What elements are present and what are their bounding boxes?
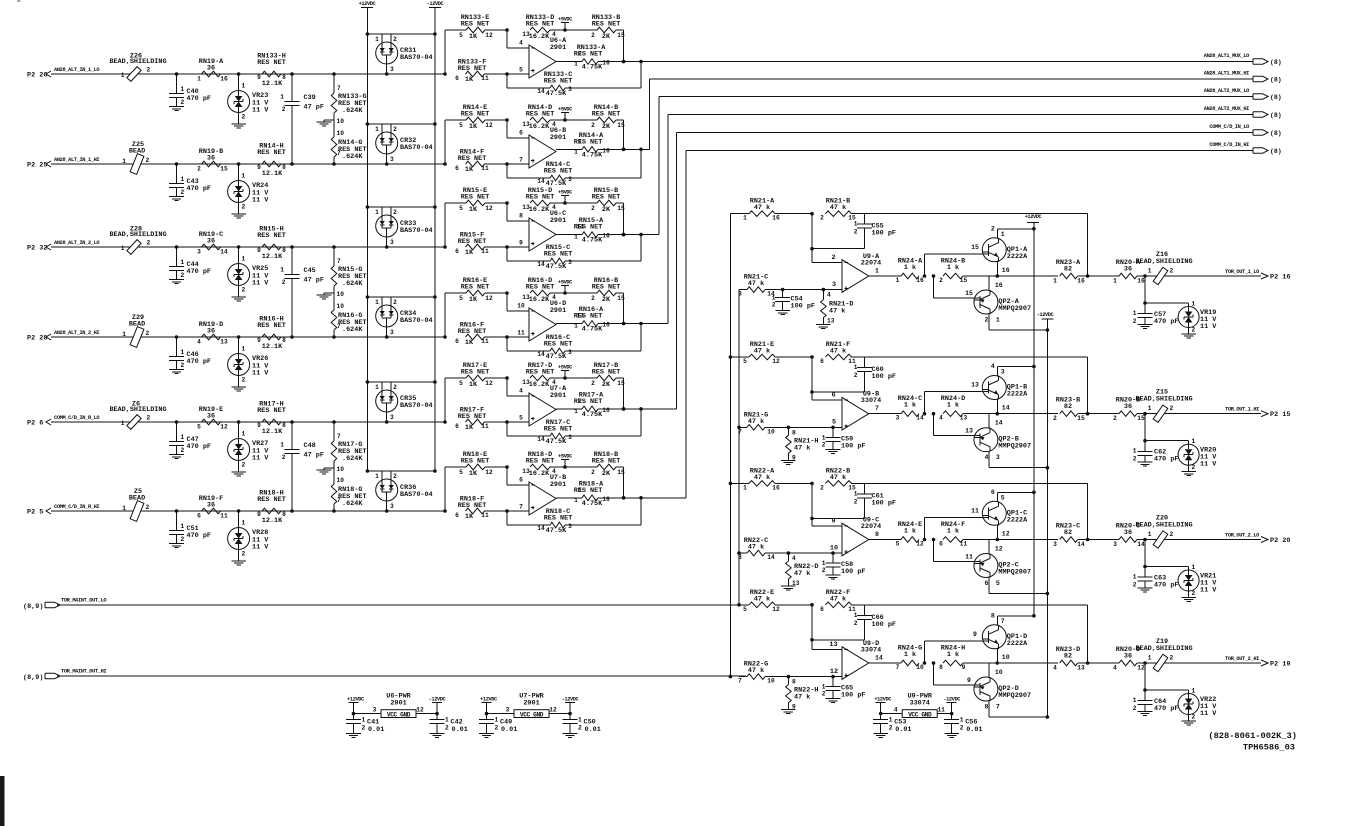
svg-text:COMM_C/D_IN_R_HI: COMM_C/D_IN_R_HI bbox=[54, 504, 99, 510]
svg-text:1: 1 bbox=[181, 259, 185, 266]
svg-text:BEAD,SHIELDING: BEAD,SHIELDING bbox=[1135, 396, 1192, 404]
svg-text:1: 1 bbox=[280, 442, 284, 449]
svg-text:1: 1 bbox=[743, 484, 747, 491]
svg-text:P2 16: P2 16 bbox=[1270, 274, 1290, 282]
svg-text:BAS70-04: BAS70-04 bbox=[400, 227, 433, 235]
svg-text:10: 10 bbox=[767, 428, 775, 435]
svg-text:1: 1 bbox=[181, 176, 185, 183]
svg-text:6: 6 bbox=[455, 423, 459, 430]
svg-text:10: 10 bbox=[767, 678, 775, 685]
svg-text:2: 2 bbox=[242, 114, 246, 121]
svg-text:RES NET: RES NET bbox=[574, 224, 603, 232]
svg-text:1K: 1K bbox=[465, 249, 474, 257]
svg-text:TOR_OUT_1_HI: TOR_OUT_1_HI bbox=[1225, 407, 1259, 413]
svg-text:RES NET: RES NET bbox=[592, 284, 621, 292]
svg-text:11: 11 bbox=[481, 512, 489, 519]
svg-text:2: 2 bbox=[393, 126, 397, 133]
svg-text:15: 15 bbox=[617, 122, 625, 129]
svg-text:9: 9 bbox=[792, 454, 796, 461]
svg-text:3: 3 bbox=[568, 86, 572, 93]
svg-text:16.2K: 16.2K bbox=[529, 123, 550, 131]
svg-text:AN28_ALT1_MUX_HI: AN28_ALT1_MUX_HI bbox=[1204, 71, 1249, 77]
svg-text:RES NET: RES NET bbox=[592, 458, 621, 466]
svg-text:0.01: 0.01 bbox=[966, 726, 982, 734]
svg-text:0.01: 0.01 bbox=[501, 726, 517, 734]
svg-text:1: 1 bbox=[875, 268, 879, 275]
svg-text:3: 3 bbox=[568, 349, 572, 356]
svg-text:47 k: 47 k bbox=[794, 444, 810, 452]
svg-text:2222A: 2222A bbox=[1007, 516, 1028, 524]
svg-text:5: 5 bbox=[459, 122, 463, 129]
svg-text:12.1K: 12.1K bbox=[262, 343, 283, 351]
svg-text:15: 15 bbox=[617, 295, 625, 302]
svg-text:6: 6 bbox=[831, 392, 835, 400]
svg-text:3: 3 bbox=[896, 415, 900, 422]
svg-text:1: 1 bbox=[242, 431, 246, 438]
svg-text:.624K: .624K bbox=[342, 153, 363, 161]
svg-text:P2 6: P2 6 bbox=[27, 420, 43, 428]
svg-text:1: 1 bbox=[1148, 268, 1152, 275]
svg-text:RES NET: RES NET bbox=[461, 21, 490, 29]
svg-text:470 pF: 470 pF bbox=[1154, 318, 1178, 326]
svg-text:47 k: 47 k bbox=[754, 595, 770, 603]
svg-text:COMM_C/D_IN_LO: COMM_C/D_IN_LO bbox=[1209, 124, 1249, 130]
svg-text:1: 1 bbox=[996, 317, 1000, 324]
svg-text:8: 8 bbox=[991, 612, 995, 619]
svg-text:8: 8 bbox=[282, 422, 286, 429]
svg-text:1: 1 bbox=[280, 267, 284, 274]
svg-text:22074: 22074 bbox=[861, 260, 881, 268]
svg-text:5: 5 bbox=[996, 580, 1000, 587]
svg-text:16.2K: 16.2K bbox=[529, 470, 550, 478]
svg-text:8: 8 bbox=[984, 704, 988, 711]
svg-text:1: 1 bbox=[1148, 531, 1152, 538]
svg-text:BAS70-04: BAS70-04 bbox=[400, 491, 433, 499]
svg-text:(828-8061-002K_3): (828-8061-002K_3) bbox=[1208, 731, 1297, 741]
svg-text:VCC GND: VCC GND bbox=[908, 711, 932, 718]
svg-text:14: 14 bbox=[537, 178, 545, 185]
svg-text:10: 10 bbox=[916, 664, 924, 671]
svg-text:2: 2 bbox=[1170, 268, 1174, 275]
svg-text:16: 16 bbox=[220, 76, 228, 83]
svg-text:16: 16 bbox=[602, 60, 610, 67]
svg-text:2K: 2K bbox=[602, 123, 611, 131]
svg-text:8: 8 bbox=[792, 429, 796, 436]
svg-text:14: 14 bbox=[767, 554, 775, 561]
svg-text:33074: 33074 bbox=[861, 647, 881, 655]
svg-text:+5VDC: +5VDC bbox=[558, 280, 573, 286]
svg-text:3: 3 bbox=[197, 249, 201, 256]
svg-text:1: 1 bbox=[122, 158, 126, 165]
svg-text:1: 1 bbox=[822, 684, 826, 691]
svg-text:47 k: 47 k bbox=[754, 204, 770, 212]
svg-text:1: 1 bbox=[242, 346, 246, 353]
svg-text:4.75K: 4.75K bbox=[582, 500, 603, 508]
svg-text:10: 10 bbox=[337, 477, 345, 484]
svg-text:AN28_ALT_IN_1_LO: AN28_ALT_IN_1_LO bbox=[54, 67, 99, 73]
svg-text:2: 2 bbox=[393, 384, 397, 391]
svg-text:3: 3 bbox=[390, 156, 394, 163]
svg-text:2: 2 bbox=[854, 620, 858, 627]
svg-text:8: 8 bbox=[792, 679, 796, 686]
svg-text:RES NET: RES NET bbox=[461, 194, 490, 202]
svg-text:6: 6 bbox=[939, 541, 943, 548]
svg-text:AN28_ALT_IN_2_LO: AN28_ALT_IN_2_LO bbox=[54, 240, 99, 246]
svg-text:2901: 2901 bbox=[550, 44, 566, 52]
svg-text:1K: 1K bbox=[465, 166, 474, 174]
svg-text:12: 12 bbox=[485, 122, 493, 129]
svg-text:1 k: 1 k bbox=[904, 264, 916, 272]
svg-text:1: 1 bbox=[375, 384, 379, 391]
svg-text:TOR_OUT_1_LO: TOR_OUT_1_LO bbox=[1225, 269, 1259, 275]
svg-text:RES NET: RES NET bbox=[458, 328, 487, 336]
svg-text:1: 1 bbox=[960, 717, 964, 724]
svg-text:COMM_C/D_IN_R_LO: COMM_C/D_IN_R_LO bbox=[54, 415, 99, 421]
svg-text:16: 16 bbox=[995, 282, 1003, 289]
svg-text:RES NET: RES NET bbox=[592, 111, 621, 119]
svg-text:10: 10 bbox=[337, 130, 345, 137]
svg-text:14: 14 bbox=[537, 351, 545, 358]
svg-text:2: 2 bbox=[1113, 415, 1117, 422]
svg-text:47 k: 47 k bbox=[830, 348, 846, 356]
svg-text:6: 6 bbox=[197, 513, 201, 520]
svg-text:47.5K: 47.5K bbox=[546, 90, 567, 98]
svg-text:100 pF: 100 pF bbox=[791, 303, 815, 311]
svg-text:6: 6 bbox=[455, 75, 459, 82]
svg-text:2: 2 bbox=[242, 551, 246, 558]
svg-text:1 k: 1 k bbox=[947, 528, 959, 536]
svg-text:3: 3 bbox=[568, 434, 572, 441]
svg-text:12.1K: 12.1K bbox=[262, 170, 283, 178]
svg-text:2: 2 bbox=[1133, 705, 1137, 712]
svg-text:RES NET: RES NET bbox=[526, 111, 555, 119]
svg-text:3: 3 bbox=[738, 554, 742, 561]
svg-text:47 pF: 47 pF bbox=[304, 277, 324, 285]
svg-text:BEAD,SHIELDING: BEAD,SHIELDING bbox=[109, 406, 166, 414]
svg-text:470 pF: 470 pF bbox=[1154, 582, 1178, 590]
svg-text:+5VDC: +5VDC bbox=[558, 107, 573, 113]
svg-text:BEAD,SHIELDING: BEAD,SHIELDING bbox=[109, 231, 166, 239]
svg-text:2: 2 bbox=[591, 295, 595, 302]
svg-text:12: 12 bbox=[416, 707, 424, 714]
svg-text:1 k: 1 k bbox=[947, 402, 959, 410]
svg-text:RES NET: RES NET bbox=[458, 155, 487, 163]
svg-text:-12VDC: -12VDC bbox=[562, 696, 580, 702]
svg-text:2: 2 bbox=[854, 498, 858, 505]
svg-text:13: 13 bbox=[1077, 665, 1085, 672]
svg-text:7: 7 bbox=[519, 504, 523, 511]
svg-text:RES NET: RES NET bbox=[526, 194, 555, 202]
svg-text:BAS70-04: BAS70-04 bbox=[400, 402, 433, 410]
svg-text:36: 36 bbox=[207, 155, 215, 163]
svg-text:1: 1 bbox=[1148, 655, 1152, 662]
svg-text:AN28_ALT2_MUX_LO: AN28_ALT2_MUX_LO bbox=[1204, 88, 1249, 94]
svg-text:47 k: 47 k bbox=[830, 204, 846, 212]
svg-text:11 V: 11 V bbox=[1200, 323, 1217, 331]
svg-text:47 pF: 47 pF bbox=[304, 104, 324, 112]
svg-text:1: 1 bbox=[197, 76, 201, 83]
svg-text:+5VDC: +5VDC bbox=[558, 17, 573, 23]
svg-text:AN28_ALT1_MUX_LO: AN28_ALT1_MUX_LO bbox=[1204, 53, 1249, 59]
svg-text:9: 9 bbox=[519, 240, 523, 247]
svg-text:1: 1 bbox=[574, 408, 578, 415]
svg-text:470 pF: 470 pF bbox=[187, 532, 211, 540]
svg-text:9: 9 bbox=[257, 164, 261, 171]
svg-text:100 pF: 100 pF bbox=[872, 621, 896, 629]
svg-text:2: 2 bbox=[591, 205, 595, 212]
svg-text:15: 15 bbox=[960, 277, 968, 284]
svg-text:1: 1 bbox=[1148, 405, 1152, 412]
svg-text:AN28_ALT2_MUX_HI: AN28_ALT2_MUX_HI bbox=[1204, 106, 1249, 112]
svg-text:14: 14 bbox=[537, 436, 545, 443]
svg-text:47 k: 47 k bbox=[748, 667, 764, 675]
svg-text:16.2K: 16.2K bbox=[529, 206, 550, 214]
svg-text:11 V: 11 V bbox=[252, 107, 269, 115]
svg-text:RES NET: RES NET bbox=[526, 458, 555, 466]
svg-text:2901: 2901 bbox=[550, 481, 566, 489]
svg-text:2: 2 bbox=[591, 469, 595, 476]
svg-text:1: 1 bbox=[574, 61, 578, 68]
svg-text:15: 15 bbox=[617, 380, 625, 387]
svg-text:470 pF: 470 pF bbox=[187, 358, 211, 366]
svg-text:2: 2 bbox=[242, 287, 246, 294]
svg-text:2: 2 bbox=[282, 454, 286, 461]
svg-text:2: 2 bbox=[1170, 405, 1174, 412]
svg-text:COMM_C/D_IN_HI: COMM_C/D_IN_HI bbox=[1209, 142, 1249, 148]
svg-text:7: 7 bbox=[738, 428, 742, 435]
svg-text:8: 8 bbox=[282, 74, 286, 81]
svg-text:16: 16 bbox=[772, 215, 780, 222]
svg-text:1K: 1K bbox=[469, 296, 478, 304]
svg-text:3: 3 bbox=[373, 707, 377, 714]
svg-text:5: 5 bbox=[832, 419, 836, 427]
svg-text:1: 1 bbox=[574, 148, 578, 155]
svg-text:2: 2 bbox=[146, 330, 150, 337]
svg-text:5: 5 bbox=[197, 424, 201, 431]
svg-text:1: 1 bbox=[445, 717, 449, 724]
svg-text:RES NET: RES NET bbox=[257, 322, 286, 330]
svg-text:1K: 1K bbox=[469, 470, 478, 478]
svg-text:7: 7 bbox=[738, 678, 742, 685]
svg-text:1: 1 bbox=[574, 497, 578, 504]
svg-text:7: 7 bbox=[337, 85, 341, 92]
svg-text:10: 10 bbox=[337, 118, 345, 125]
svg-text:+5VDC: +5VDC bbox=[558, 365, 573, 371]
svg-text:RES NET: RES NET bbox=[461, 369, 490, 377]
svg-text:6: 6 bbox=[455, 165, 459, 172]
svg-text:(8): (8) bbox=[1270, 94, 1282, 101]
svg-text:9: 9 bbox=[962, 664, 966, 671]
svg-text:15: 15 bbox=[965, 290, 973, 297]
svg-text:.624K: .624K bbox=[342, 280, 363, 288]
svg-text:2: 2 bbox=[772, 302, 776, 309]
svg-text:100 pF: 100 pF bbox=[872, 373, 896, 381]
svg-text:7: 7 bbox=[996, 704, 1000, 711]
svg-text:2: 2 bbox=[146, 157, 150, 164]
svg-text:11 V: 11 V bbox=[1200, 461, 1217, 469]
svg-text:9: 9 bbox=[257, 74, 261, 81]
svg-text:13: 13 bbox=[792, 580, 800, 587]
svg-text:3: 3 bbox=[568, 259, 572, 266]
svg-text:12: 12 bbox=[485, 469, 493, 476]
svg-text:470 pF: 470 pF bbox=[187, 185, 211, 193]
svg-text:47.5K: 47.5K bbox=[546, 438, 567, 446]
svg-text:12.1K: 12.1K bbox=[262, 253, 283, 261]
svg-text:RES NET: RES NET bbox=[574, 487, 603, 495]
svg-text:9: 9 bbox=[973, 631, 977, 638]
svg-text:7: 7 bbox=[337, 258, 341, 265]
svg-text:2901: 2901 bbox=[550, 217, 566, 225]
svg-text:1: 1 bbox=[574, 323, 578, 330]
svg-text:2: 2 bbox=[820, 215, 824, 222]
svg-text:13: 13 bbox=[827, 318, 835, 325]
svg-text:47 k: 47 k bbox=[754, 348, 770, 356]
svg-text:2: 2 bbox=[1192, 714, 1196, 721]
svg-text:5: 5 bbox=[1001, 494, 1005, 501]
svg-text:2: 2 bbox=[889, 725, 893, 732]
svg-text:6: 6 bbox=[519, 477, 523, 484]
svg-text:7: 7 bbox=[337, 433, 341, 440]
svg-text:100 pF: 100 pF bbox=[872, 230, 896, 238]
svg-text:47.5K: 47.5K bbox=[546, 263, 567, 271]
svg-text:1: 1 bbox=[1001, 231, 1005, 238]
svg-text:1K: 1K bbox=[469, 123, 478, 131]
svg-text:2: 2 bbox=[181, 447, 185, 454]
svg-text:2: 2 bbox=[1133, 318, 1137, 325]
svg-text:-12VDC: -12VDC bbox=[427, 1, 445, 7]
svg-text:4: 4 bbox=[792, 555, 796, 562]
svg-text:0.01: 0.01 bbox=[368, 726, 384, 734]
svg-text:16.2K: 16.2K bbox=[529, 381, 550, 389]
svg-text:6: 6 bbox=[455, 512, 459, 519]
svg-text:MMPQ2907: MMPQ2907 bbox=[998, 692, 1031, 700]
svg-text:RES NET: RES NET bbox=[257, 496, 286, 504]
svg-text:2: 2 bbox=[393, 209, 397, 216]
svg-text:1: 1 bbox=[375, 209, 379, 216]
svg-text:MMPQ2907: MMPQ2907 bbox=[998, 569, 1031, 577]
svg-text:10: 10 bbox=[337, 466, 345, 473]
svg-text:RES NET: RES NET bbox=[257, 59, 286, 67]
svg-text:RES NET: RES NET bbox=[461, 284, 490, 292]
svg-text:1: 1 bbox=[122, 505, 126, 512]
svg-text:2: 2 bbox=[181, 272, 185, 279]
svg-text:4: 4 bbox=[197, 339, 201, 346]
svg-text:BAS70-04: BAS70-04 bbox=[400, 317, 433, 325]
svg-text:2222A: 2222A bbox=[1007, 640, 1028, 648]
svg-text:11: 11 bbox=[220, 513, 228, 520]
svg-text:14: 14 bbox=[1077, 541, 1085, 548]
svg-text:2: 2 bbox=[147, 415, 151, 422]
svg-text:8: 8 bbox=[282, 511, 286, 518]
svg-text:1 k: 1 k bbox=[947, 264, 959, 272]
svg-text:2: 2 bbox=[495, 725, 499, 732]
svg-text:RES NET: RES NET bbox=[458, 502, 487, 510]
svg-text:16.2K: 16.2K bbox=[529, 33, 550, 41]
svg-text:RES NET: RES NET bbox=[461, 458, 490, 466]
svg-text:1K: 1K bbox=[469, 381, 478, 389]
svg-text:12: 12 bbox=[485, 205, 493, 212]
svg-text:6: 6 bbox=[820, 606, 824, 613]
svg-text:P2 15: P2 15 bbox=[1270, 411, 1290, 419]
svg-text:15: 15 bbox=[617, 32, 625, 39]
svg-text:3: 3 bbox=[1053, 541, 1057, 548]
svg-text:1: 1 bbox=[242, 83, 246, 90]
svg-text:11 V: 11 V bbox=[1200, 710, 1217, 718]
svg-text:4: 4 bbox=[894, 707, 898, 714]
svg-text:(8): (8) bbox=[1270, 148, 1282, 155]
svg-text:10: 10 bbox=[1002, 654, 1010, 661]
svg-text:1: 1 bbox=[375, 299, 379, 306]
svg-text:14: 14 bbox=[995, 420, 1003, 427]
svg-text:47.5K: 47.5K bbox=[546, 353, 567, 361]
svg-text:33074: 33074 bbox=[861, 397, 881, 405]
svg-text:2901: 2901 bbox=[523, 700, 539, 708]
svg-text:36: 36 bbox=[207, 65, 215, 73]
svg-text:2: 2 bbox=[854, 229, 858, 236]
svg-text:47 k: 47 k bbox=[830, 595, 846, 603]
svg-text:RES NET: RES NET bbox=[574, 313, 603, 321]
svg-text:100 pF: 100 pF bbox=[841, 568, 865, 576]
svg-text:TOR_MAINT_OUT_LO: TOR_MAINT_OUT_LO bbox=[61, 598, 106, 604]
svg-text:2: 2 bbox=[591, 122, 595, 129]
svg-text:RES NET: RES NET bbox=[592, 21, 621, 29]
svg-text:2901: 2901 bbox=[390, 700, 406, 708]
svg-text:1: 1 bbox=[1133, 574, 1137, 581]
svg-text:470 pF: 470 pF bbox=[1154, 705, 1178, 713]
svg-text:1: 1 bbox=[1192, 564, 1196, 571]
svg-text:1: 1 bbox=[1133, 448, 1137, 455]
svg-text:6: 6 bbox=[455, 338, 459, 345]
svg-text:12: 12 bbox=[549, 707, 557, 714]
svg-text:13: 13 bbox=[829, 641, 837, 649]
svg-text:1: 1 bbox=[362, 717, 366, 724]
svg-text:36: 36 bbox=[207, 328, 215, 336]
svg-text:RES NET: RES NET bbox=[257, 407, 286, 415]
svg-text:1: 1 bbox=[181, 434, 185, 441]
svg-text:6: 6 bbox=[984, 580, 988, 587]
svg-text:1: 1 bbox=[375, 126, 379, 133]
svg-text:RES NET: RES NET bbox=[257, 149, 286, 157]
svg-text:1: 1 bbox=[854, 612, 858, 619]
svg-text:1: 1 bbox=[1113, 278, 1117, 285]
svg-text:4: 4 bbox=[984, 454, 988, 461]
svg-text:11: 11 bbox=[937, 707, 945, 714]
svg-text:2: 2 bbox=[181, 536, 185, 543]
svg-text:9: 9 bbox=[257, 422, 261, 429]
svg-text:14: 14 bbox=[916, 415, 924, 422]
svg-text:6: 6 bbox=[820, 358, 824, 365]
svg-text:2: 2 bbox=[147, 67, 151, 74]
svg-text:6: 6 bbox=[519, 130, 523, 137]
svg-text:14: 14 bbox=[537, 88, 545, 95]
svg-text:15: 15 bbox=[1137, 415, 1145, 422]
svg-text:0.01: 0.01 bbox=[585, 726, 601, 734]
svg-text:RES NET: RES NET bbox=[544, 426, 573, 434]
svg-text:4: 4 bbox=[1053, 665, 1057, 672]
svg-text:0.01: 0.01 bbox=[895, 726, 911, 734]
svg-text:12: 12 bbox=[485, 32, 493, 39]
svg-text:1 k: 1 k bbox=[904, 651, 916, 659]
svg-text:4: 4 bbox=[991, 363, 995, 370]
svg-text:15: 15 bbox=[971, 244, 979, 251]
svg-text:7: 7 bbox=[519, 157, 523, 164]
svg-text:+5VDC: +5VDC bbox=[558, 190, 573, 196]
svg-text:5: 5 bbox=[459, 295, 463, 302]
svg-text:11 V: 11 V bbox=[252, 197, 269, 205]
svg-text:BEAD: BEAD bbox=[129, 148, 145, 156]
svg-text:4.75K: 4.75K bbox=[582, 411, 603, 419]
svg-text:12: 12 bbox=[772, 358, 780, 365]
